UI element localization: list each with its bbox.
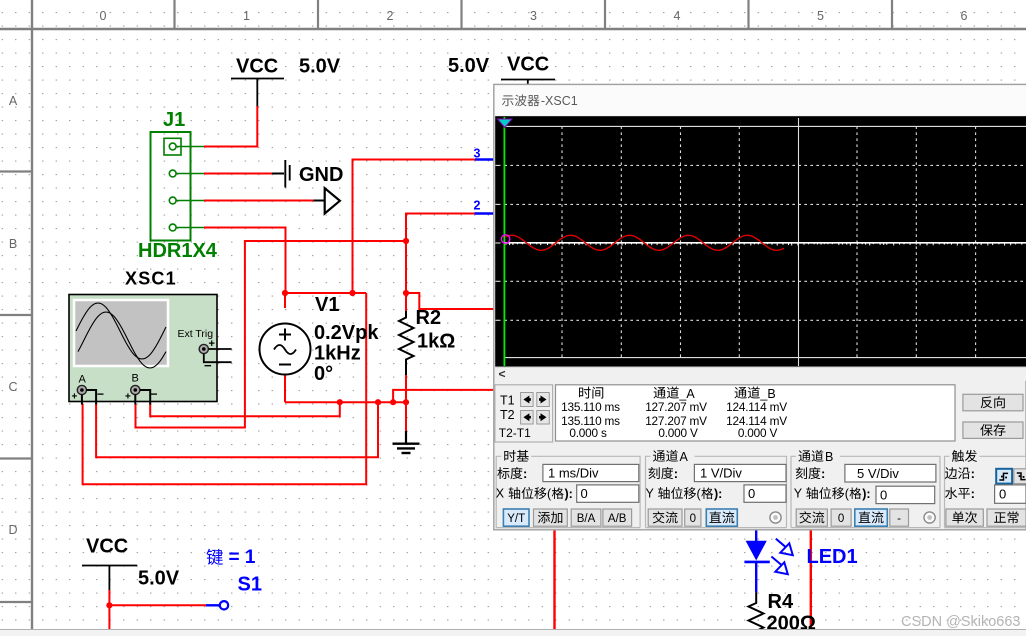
- node T1/T2 cursor control box: [495, 385, 553, 442]
- node channel A scale row: [648, 464, 786, 481]
- net 3 blue segment: [475, 158, 494, 160]
- wire net 2 (to scope channel B): [406, 214, 475, 294]
- wire channel A waveform (red): [505, 235, 784, 250]
- svg-text::: :: [971, 486, 975, 501]
- node timebase scale row: [497, 464, 638, 481]
- svg-text:3: 3: [530, 9, 537, 23]
- resistor R2 1k: [399, 311, 414, 375]
- svg-text:0.2Vpk: 0.2Vpk: [314, 322, 379, 344]
- svg-text:C: C: [8, 380, 17, 394]
- svg-text:-XSC1: -XSC1: [541, 94, 578, 108]
- svg-text:1kHz: 1kHz: [314, 343, 361, 365]
- node scope terminal B: [125, 373, 158, 405]
- resistor R4 200 Ohm: [749, 592, 764, 636]
- node scope screen: [495, 116, 1026, 366]
- svg-text:−: −: [204, 358, 212, 373]
- node trigger edge row: [945, 466, 975, 481]
- svg-text:0.000 V: 0.000 V: [738, 426, 778, 440]
- op-amp XSC1 oscilloscope instrument icon: [69, 295, 217, 402]
- svg-text:4: 4: [674, 9, 681, 23]
- svg-text:LED1: LED1: [807, 546, 858, 568]
- svg-text:1: 1: [243, 9, 250, 23]
- wire R2 to ground: [405, 402, 407, 431]
- node channel A Y offset row: [646, 485, 787, 502]
- svg-text:J1: J1: [163, 109, 185, 131]
- node Ext Trig terminal: [178, 328, 232, 373]
- svg-text:0: 0: [838, 513, 844, 525]
- node port arrow (input connector): [314, 200, 325, 202]
- wire R2 bottom lead: [405, 375, 407, 402]
- svg-text:0: 0: [748, 486, 755, 501]
- svg-text:0: 0: [581, 486, 588, 501]
- svg-text:S1: S1: [238, 574, 262, 596]
- svg-text:_A: _A: [678, 387, 695, 401]
- svg-text:A: A: [680, 450, 689, 464]
- node channel A radio: [770, 512, 781, 523]
- wire VCC to S1 and down: [108, 590, 110, 605]
- wire scope scrollbar row: [495, 367, 1026, 381]
- node timebase X offset row: [496, 485, 639, 502]
- wire V1 top lead: [284, 293, 286, 308]
- svg-text:−: −: [151, 387, 158, 401]
- svg-text:2: 2: [387, 9, 394, 23]
- node timebase buttons: [503, 509, 631, 526]
- svg-text:5: 5: [817, 9, 824, 23]
- node trigger buttons: [946, 509, 1026, 526]
- node button fanxiang: [963, 394, 1023, 411]
- wire scope graticule: [496, 118, 1026, 366]
- wire J1 pin 3 to port arrow: [204, 200, 314, 202]
- label window title: [502, 94, 578, 108]
- svg-text:XSC1: XSC1: [125, 269, 177, 289]
- node channel A buttons: [648, 509, 737, 526]
- svg-text:A: A: [79, 374, 87, 386]
- svg-text:6: 6: [961, 9, 968, 23]
- svg-text:124.114 mV: 124.114 mV: [726, 400, 787, 414]
- wire VCC to J1 pin 1: [204, 106, 257, 147]
- svg-text:HDR1X4: HDR1X4: [138, 240, 218, 262]
- node junction dots: [282, 238, 409, 405]
- svg-text:B/A: B/A: [577, 513, 596, 525]
- node channel B scale row: [796, 464, 936, 482]
- node trigger edge buttons: [996, 469, 1026, 484]
- LED LED1: [744, 530, 792, 593]
- svg-text:0.000 V: 0.000 V: [658, 426, 698, 440]
- wire R2 top to right (under window): [406, 293, 494, 309]
- svg-text:−: −: [97, 387, 104, 401]
- svg-text:CSDN @Skiko663: CSDN @Skiko663: [901, 614, 1020, 630]
- wire J1 pin 4 to node of V1: [204, 228, 286, 294]
- svg-text:3: 3: [474, 147, 481, 161]
- power VCC symbol (bottom, 5.0V): [82, 536, 137, 592]
- svg-text:B: B: [9, 237, 17, 251]
- svg-text:0: 0: [999, 487, 1006, 502]
- op-amp oscilloscope window XSC1: [494, 84, 1026, 529]
- net 2 blue segment: [475, 212, 495, 214]
- svg-text:):: ):: [565, 487, 573, 501]
- svg-text:5.0V: 5.0V: [299, 56, 341, 78]
- wire R2 top lead: [405, 293, 407, 311]
- svg-text:B: B: [132, 373, 139, 385]
- svg-text:135.110 ms: 135.110 ms: [561, 400, 620, 414]
- node trigger level row: [945, 485, 1026, 503]
- svg-text:0: 0: [880, 488, 887, 503]
- node channel marker circle: [501, 235, 509, 243]
- svg-text:1 V/Div: 1 V/Div: [700, 466, 742, 481]
- svg-text:T1: T1: [500, 394, 515, 408]
- svg-text::: :: [821, 466, 825, 481]
- label key = 1: [206, 547, 255, 568]
- node readout table: [556, 385, 956, 441]
- connector J1 HDR1X4: [151, 132, 205, 241]
- svg-text:5.0V: 5.0V: [448, 55, 490, 77]
- transistor S1 switch terminal: [206, 601, 228, 609]
- wire V1 bottom lead: [284, 376, 286, 403]
- svg-text:R4: R4: [768, 591, 794, 613]
- node channel B Y offset row: [794, 486, 935, 503]
- svg-text:1 ms/Div: 1 ms/Div: [548, 466, 599, 481]
- svg-text:_B: _B: [759, 387, 775, 401]
- svg-text:0°: 0°: [314, 363, 333, 385]
- svg-text:0: 0: [690, 513, 696, 525]
- node channel B radio: [924, 512, 935, 523]
- svg-text:VCC: VCC: [507, 54, 549, 76]
- node group timebase: [496, 449, 640, 527]
- node junction at VCC/S1: [106, 602, 112, 608]
- svg-text:-: -: [897, 513, 901, 525]
- svg-text:0.000 s: 0.000 s: [569, 426, 607, 440]
- node T1 cursor (green): [503, 117, 505, 366]
- node group channel B: [791, 449, 940, 527]
- svg-text::: :: [523, 466, 527, 481]
- svg-text:):: ):: [862, 487, 870, 501]
- wire scope A- probe branch: [96, 402, 378, 457]
- svg-text:T2-T1: T2-T1: [499, 426, 531, 440]
- ground (analog, below R2): [393, 431, 420, 453]
- svg-text:T2: T2: [500, 408, 515, 422]
- wire channel B trace (white): [504, 243, 1026, 246]
- svg-text:):: ):: [714, 487, 722, 501]
- svg-text:R2: R2: [416, 307, 442, 329]
- svg-text::: :: [674, 466, 678, 481]
- svg-text:+: +: [72, 392, 78, 403]
- svg-text:VCC: VCC: [86, 536, 128, 558]
- wire J1 pin 2 to GND: [204, 173, 272, 175]
- node channel B buttons: [796, 509, 908, 526]
- wire net 3 (to scope channel A): [353, 160, 476, 294]
- svg-text:+: +: [125, 392, 131, 403]
- wire scope B- probe branch: [150, 402, 340, 416]
- svg-text:0: 0: [100, 9, 107, 23]
- svg-text:127.207 mV: 127.207 mV: [645, 400, 707, 414]
- svg-text:A/B: A/B: [608, 513, 627, 525]
- node group trigger: [945, 449, 1026, 527]
- svg-text:B: B: [825, 450, 833, 464]
- power VCC symbol (top right, 5.0V): [501, 54, 555, 86]
- wire scope B+ probe to net 2: [136, 241, 407, 428]
- node group channel A: [646, 449, 787, 527]
- wire ground node to right (under window): [393, 390, 494, 402]
- svg-text:5.0V: 5.0V: [138, 568, 180, 590]
- svg-text:1kΩ: 1kΩ: [417, 331, 455, 353]
- wire left vertical (from under window): [553, 530, 555, 629]
- wire bottom scrollbar: [0, 630, 1026, 636]
- svg-text::: :: [971, 466, 975, 481]
- source V1 AC 0.2Vpk 1kHz: [260, 324, 311, 375]
- ground GND (digital ground): [272, 160, 343, 188]
- svg-text:<: <: [499, 367, 506, 381]
- wire V1 bottom / ground node: [285, 401, 406, 403]
- svg-text:D: D: [8, 523, 17, 537]
- svg-text:2: 2: [474, 199, 481, 213]
- svg-text:X: X: [496, 487, 505, 501]
- node scope terminal A: [72, 374, 105, 405]
- svg-text:VCC: VCC: [236, 56, 278, 78]
- wire V1 top node: [285, 292, 366, 294]
- node button baocun: [963, 422, 1023, 438]
- svg-text:A: A: [9, 94, 18, 108]
- svg-text:V1: V1: [315, 294, 339, 316]
- wire scope A+ probe loop: [83, 293, 367, 484]
- power VCC symbol (top, 5.0V): [231, 56, 284, 108]
- svg-text:Y: Y: [794, 487, 803, 501]
- svg-text:GND: GND: [299, 164, 343, 186]
- svg-text:= 1: = 1: [229, 547, 256, 568]
- svg-text:Y: Y: [646, 487, 655, 501]
- svg-text:Y/T: Y/T: [507, 513, 525, 525]
- wire right vertical (from under window): [810, 530, 812, 629]
- svg-text:5 V/Div: 5 V/Div: [857, 466, 899, 481]
- node T marker triangle: [498, 119, 513, 128]
